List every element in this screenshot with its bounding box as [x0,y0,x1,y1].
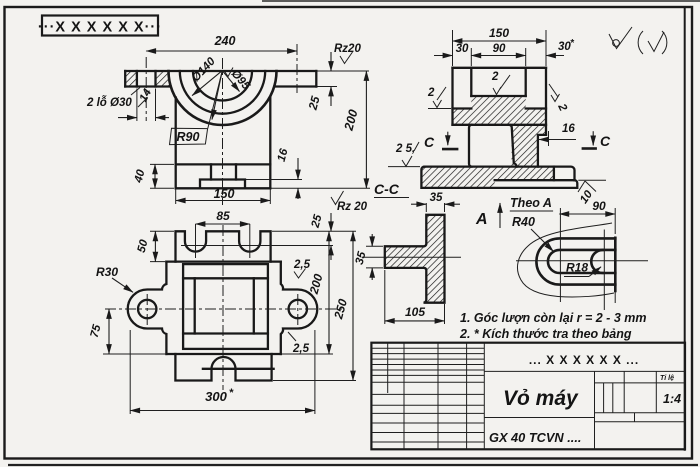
front view: flange bottom edge left [125,85,171,87]
dim 250 plan [352,231,354,380]
dim 50 extensions [150,231,174,261]
R90 label box [170,128,208,144]
svg-text:2 5,: 2 5, [395,143,415,155]
svg-text:30: 30 [456,43,469,55]
parenthesis tick symbol [638,31,643,54]
dim 200 right [365,71,367,188]
svg-text:C-C: C-C [374,181,400,197]
svg-text:90: 90 [592,199,606,213]
dim 150 extensions [176,190,271,205]
svg-text:90: 90 [493,43,506,55]
dim 90 [471,55,525,57]
dim 40 [154,164,156,188]
plan view: boss inner verticals [195,278,254,333]
svg-text:R30: R30 [96,265,118,279]
section view: right step [538,135,546,167]
dim 75 [108,309,110,354]
plan view: right lobe hole [289,300,307,318]
svg-text:Vỏ máy: Vỏ máy [503,387,579,410]
dim 150 [176,200,271,202]
dim dia30 extension lines [137,89,156,122]
section view: base top edge [425,167,575,181]
svg-text:85: 85 [216,209,230,223]
surface mark 2 right [549,84,558,97]
scan edge top [262,0,700,2]
section view: flange bottom edge [453,124,547,126]
dia140 radial leader [192,71,222,96]
A-view outer C shape [536,238,615,284]
section view: right outer edge [545,68,547,135]
dim 105 extensions [385,270,445,324]
A-view R18 arc [591,250,603,273]
svg-text:···X X X X X X···: ···X X X X X X··· [38,20,162,36]
svg-text:2: 2 [427,87,435,99]
front view: body right side [269,98,271,189]
svg-text:240: 240 [214,34,236,48]
dim 35 left [371,234,373,246]
dim 35 left extensions [366,246,383,268]
front view: base lower step [200,180,245,189]
dim 105 [385,320,445,322]
surface finish tick symbol [609,27,632,49]
svg-text:... X X X X X X ...: ... X X X X X X ... [529,353,639,367]
svg-text:2,5: 2,5 [293,259,311,271]
plan view: middle body top edge [166,260,280,262]
dim 16 arrows [297,158,299,180]
svg-text:2 lỗ Ø30: 2 lỗ Ø30 [86,96,132,109]
front view: outer arc R90 [169,71,277,125]
C-C T-section outline [385,215,445,303]
dim dia30 arrows [118,117,137,119]
svg-text:*: * [229,387,234,399]
scale sub-block rows [595,383,686,422]
scale sub-block verticals [604,371,657,421]
front view: body left side [175,98,177,189]
R90 radial leader [208,71,223,129]
plan view: notch arc centerline [181,245,333,247]
inner right margin line [684,7,686,451]
title block outer rect [371,343,685,450]
dim 40 extensions [150,164,174,188]
section view: hatch rib column [512,125,538,167]
surface mark 2 left [428,108,451,110]
dim 75 extension [103,353,165,355]
section view: step line [495,179,575,181]
svg-text:R40: R40 [512,215,535,229]
front view: bolt hole right edge [154,71,156,87]
dim 90 A-view [559,213,615,215]
front view: right hole centerline [296,44,298,93]
svg-text:Tỉ lệ: Tỉ lệ [660,375,674,382]
front view: flange bottom edge right [274,85,316,87]
dim 300 extensions [130,330,315,414]
plan view: middle body bottom edge [166,353,280,355]
dim 85 [196,223,250,225]
front view: flange hatch left segment [125,71,137,87]
front view: vertical centerline [222,58,224,205]
plan view: bottom block outline with U-notch [175,354,271,381]
dia95 label with tick [225,68,233,77]
plan view: left lobe hole [138,300,156,318]
plan view: middle body outline left [128,262,167,354]
svg-text:105: 105 [405,305,425,319]
dim 30 star right [546,55,564,57]
front view: base upper step [211,164,236,179]
plan view: vertical centerline [222,225,224,390]
dim 200 plan [328,231,330,354]
dim 300 [130,410,315,412]
dim 150 section [453,40,547,42]
fillet note 2,5 lower [288,332,296,341]
svg-text:1:4: 1:4 [663,392,681,406]
svg-text:Rz 20: Rz 20 [337,201,368,213]
dim 25 plan right [330,213,332,231]
front view: flange left end [124,71,126,87]
svg-text:C: C [424,134,435,150]
plan right extensions [272,231,356,380]
dim 25 right extensions [318,71,370,87]
section view: hatch base middle [495,167,554,181]
dim 35 top [411,203,426,205]
stamp box top-left [42,16,158,36]
plan view: middle body outline right [281,262,317,354]
dim 85 extensions [196,224,250,258]
section view: hatch base left [421,167,494,188]
title block heavy divider [371,381,484,383]
plan view: top block outline with two U-notches [176,231,271,261]
section view: hatch middle column under slot [471,96,525,109]
svg-text:1. Góc lượn còn lại r = 2 - 3: 1. Góc lượn còn lại r = 2 - 3 mm [460,311,646,325]
svg-text:Rz20: Rz20 [334,43,361,55]
section view: left outer edge [451,68,453,125]
section view: slot floor [471,95,525,97]
section view: top extension lines [453,30,547,66]
plan view: boss band lines [183,278,268,333]
plan view: hole vertical centerlines [147,294,298,325]
svg-text:R18: R18 [566,261,588,275]
dia95 radial leader [222,71,239,92]
dim 25 arrows [330,52,332,71]
plan view: horizontal centerline [105,308,345,310]
section view: slot walls [471,68,525,96]
section view: hatch flange band [453,109,547,125]
A-view centerlines [559,208,561,302]
C-C centerline [362,256,461,258]
A-view break line [517,223,614,297]
dim 35 top extensions [426,203,444,212]
title block left grid horizontals lower [371,394,484,442]
Vo may cell [484,417,594,419]
front view: flange hatch right of hole [156,71,172,87]
front view: flange top edge [125,70,316,72]
svg-text:150: 150 [489,26,509,40]
svg-text:2. * Kích thước tra theo bảng: 2. * Kích thước tra theo bảng [459,327,632,341]
section view: hatch right step [538,125,546,135]
scan edge bottom [8,464,698,466]
title block left grid verticals [388,343,467,450]
section view: end box left edge [553,167,555,181]
section view: base outline [421,167,577,188]
section view: rib left edge [509,125,517,167]
base bottom extension to right [272,187,371,189]
section view: waist left edge [469,125,472,167]
svg-text:300: 300 [205,389,227,404]
svg-text:GX 40 TCVN ....: GX 40 TCVN .... [489,430,581,445]
dim 30 left [434,55,453,57]
Rz 20 bottom right [331,191,344,205]
front view: inner arc dia95 [193,71,252,101]
svg-text:35: 35 [430,192,443,204]
dim 240 [146,50,297,52]
front view: bolt hole left edge [136,71,138,87]
scale sub-block left edge [594,371,596,449]
svg-text:C: C [600,133,611,149]
front view: base bottom edge [176,187,271,189]
front view: middle arc dia140 [180,71,265,114]
svg-text:A: A [475,211,488,228]
svg-text:R90: R90 [177,130,200,144]
dim 50 [154,231,156,261]
svg-text:16: 16 [562,123,575,135]
front view: base top edge [176,163,271,165]
A-view right cap [614,238,617,291]
svg-text:2: 2 [491,71,499,83]
C-C T-section hatch [385,215,445,303]
section view: side ledges [453,107,547,109]
note 10 leader [578,179,606,181]
dim 16 extension [246,179,302,181]
plan view: boss outer rect [183,264,268,349]
front view: left hole centerline [145,57,147,121]
svg-text:Theo A: Theo A [510,196,552,210]
section view: top edge [453,67,547,69]
front view: flange right end [315,71,317,87]
title row X cell divider [484,370,685,372]
svg-text:150: 150 [214,187,235,201]
title block main vertical [483,343,485,450]
title block left grid horizontals upper [371,348,484,375]
svg-text:2,5: 2,5 [292,343,310,355]
plan view: bottom block ledge line [203,368,274,370]
A-view inner slot [548,250,615,273]
